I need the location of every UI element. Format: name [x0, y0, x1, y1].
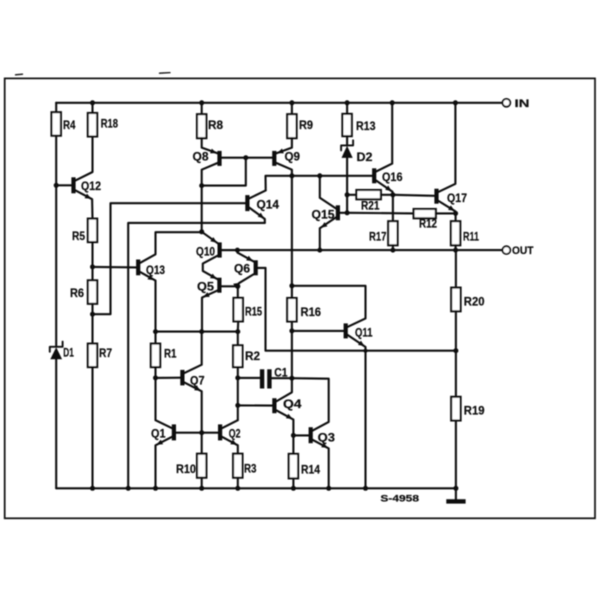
svg-text:R6: R6 [70, 286, 84, 300]
transistor Q12 [71, 177, 75, 193]
resistor R16 [287, 298, 296, 322]
wire R10 bottom lead [201, 478, 203, 489]
resistor R7 [88, 344, 97, 368]
wire R8 top lead [201, 103, 203, 114]
svg-text:R7: R7 [99, 346, 112, 360]
wire R4 top lead [55, 103, 57, 112]
svg-text:R3: R3 [244, 462, 257, 476]
node Q12 base junction [54, 183, 59, 188]
node Q17 emitter junction [453, 211, 458, 216]
node ground junction [453, 486, 458, 491]
wire R20 top lead [455, 250, 457, 288]
svg-text:Q4: Q4 [283, 397, 302, 411]
resistor R5 [88, 219, 97, 243]
transistor Q9 [272, 151, 276, 166]
node Q9 collector junction [289, 173, 294, 178]
wire Q9 collector down to R16 [291, 176, 293, 298]
wire R21 right lead [381, 194, 393, 196]
wire R13 top lead [346, 103, 348, 114]
wire R20 bottom to divider node [455, 311, 457, 397]
node R15 R2 junction [235, 329, 240, 334]
resistor R4 [52, 112, 61, 136]
transistor Q15 [336, 205, 340, 220]
zener diode D2 [341, 140, 353, 150]
svg-text:Q2: Q2 [229, 426, 241, 440]
node Q16 emitter junction [390, 192, 395, 197]
resistor R6 [88, 280, 97, 304]
svg-text:R17: R17 [369, 230, 387, 244]
svg-text:R8: R8 [208, 118, 223, 132]
ground [455, 488, 457, 499]
node Q8 Q9 base tie [243, 155, 248, 160]
wire R13 to D2 [346, 136, 348, 145]
node Q5 base junction [235, 284, 240, 289]
wire D1 bottom to ground bus [55, 359, 57, 488]
resistor R13 [342, 114, 351, 136]
transistor Q2 [218, 424, 222, 440]
wire R21 left lead [347, 194, 356, 196]
node R18 top [90, 100, 95, 105]
wire R14 bottom lead [292, 478, 294, 488]
node Q3 base junction [291, 433, 296, 438]
wire R9 to Q9 emitter [276, 138, 292, 153]
node Q8 collector loop junction [199, 183, 204, 188]
svg-text:Q13: Q13 [146, 263, 165, 277]
wire base tie loop to Q8 collector [202, 158, 246, 186]
wire R12 left lead through R17 column [347, 212, 414, 215]
wire R18 to Q12 collector [75, 137, 92, 181]
svg-text:Q5: Q5 [197, 280, 214, 294]
node R5 R6 junction [90, 264, 95, 269]
svg-text:Q14: Q14 [257, 198, 280, 212]
node R6 R7 junction [90, 312, 95, 317]
node Q1 Q2 base junction [199, 430, 204, 435]
node Q4 base junction [235, 403, 240, 408]
svg-text:S-4958: S-4958 [380, 494, 419, 504]
wire bottom ground bus [56, 487, 456, 489]
node Q10 base junction on output rail [235, 248, 240, 253]
node C1 right junction [289, 376, 294, 381]
svg-text:R2: R2 [245, 349, 260, 363]
wire R11 bottom lead [455, 245, 457, 250]
capacitor C1 [260, 369, 264, 388]
node Q7 collector junction [199, 329, 204, 334]
node R13 top [345, 100, 350, 105]
wire R8 to Q8 emitter [202, 138, 218, 153]
svg-text:Q8: Q8 [193, 150, 209, 164]
svg-text:R21: R21 [361, 199, 380, 213]
transistor Q14 [245, 195, 249, 211]
wire R16 bottom lead [291, 322, 293, 379]
resistor R8 [197, 114, 206, 138]
svg-text:Q9: Q9 [285, 150, 301, 164]
wire Q17 base wire [393, 195, 435, 196]
wire top supply rail [56, 102, 502, 104]
wire Q13 base wire [93, 266, 137, 269]
transistor Q11 [344, 323, 348, 338]
svg-text:Q17: Q17 [447, 191, 467, 205]
wire R18 top lead [91, 103, 93, 113]
node Q15 emitter on output rail [317, 248, 322, 253]
transistor Q3 [309, 427, 313, 443]
svg-text:R15: R15 [245, 305, 262, 319]
resistor R15 [234, 298, 243, 322]
svg-text:R13: R13 [356, 119, 376, 133]
wire R3 bottom lead [237, 478, 239, 489]
svg-text:R14: R14 [301, 462, 320, 476]
svg-text:R18: R18 [101, 117, 119, 131]
wire R10 top lead [201, 433, 203, 454]
resistor R10 [197, 454, 206, 478]
resistor R2 [233, 345, 242, 367]
wire output rail [222, 249, 503, 251]
svg-text:Q7: Q7 [190, 373, 205, 387]
svg-text:OUT: OUT [512, 245, 534, 257]
svg-text:D1: D1 [63, 346, 74, 360]
wire Q7 base wire [156, 377, 181, 379]
node R9 top [289, 100, 294, 105]
wire R11 top lead [455, 213, 457, 221]
wire R17 top lead [392, 195, 394, 221]
svg-text:Q12: Q12 [81, 179, 101, 193]
node divider junction [453, 348, 458, 353]
node R8 top [199, 100, 204, 105]
wire Q14 collector to Q16 base line [266, 176, 373, 191]
wire R2 top lead [237, 332, 239, 346]
svg-text:Q6: Q6 [234, 261, 250, 275]
node Q15 base junction [345, 210, 350, 215]
wire D2 down to R21 node [346, 158, 348, 213]
svg-text:R19: R19 [464, 403, 485, 417]
svg-text:R4: R4 [63, 118, 76, 132]
svg-text:Q11: Q11 [355, 326, 373, 340]
node A mirror output junction [199, 229, 204, 234]
wire R19 bottom to ground [455, 421, 457, 489]
svg-text:R12: R12 [419, 217, 437, 231]
transistor Q17 [434, 189, 438, 204]
wire C1 right lead [272, 377, 292, 379]
node R21 left junction [345, 192, 350, 197]
resistor R12 [414, 209, 436, 218]
terminal IN [503, 99, 511, 107]
wire R9 top lead [291, 103, 293, 114]
wire C1 left lead [238, 377, 260, 379]
resistor R18 [88, 113, 97, 137]
svg-text:D2: D2 [357, 150, 373, 164]
wire Q14 emitter return to ground bus [128, 223, 265, 488]
node R17 on output rail [390, 248, 395, 253]
schematic border frame [5, 78, 595, 518]
node Q11 base junction [289, 328, 294, 333]
svg-text:R16: R16 [301, 305, 322, 319]
svg-text:R11: R11 [463, 230, 479, 244]
transistor Q10 [218, 242, 222, 257]
wire R15 bottom lead [237, 321, 239, 331]
transistor Q13 [136, 260, 140, 276]
resistor R11 [451, 221, 460, 245]
resistor R3 [233, 454, 242, 478]
svg-text:IN: IN [515, 98, 530, 110]
wire lower bias rail [156, 331, 238, 333]
resistor R1 [151, 344, 160, 368]
transistor Q5 [217, 278, 221, 293]
svg-text:Q1: Q1 [151, 426, 166, 440]
svg-text:R1: R1 [164, 347, 177, 361]
zener diode D1 [50, 342, 63, 352]
wire Q6 base down to divider node [266, 268, 456, 351]
wire R5 to R6 [91, 242, 93, 280]
wire R6 to R7 [91, 304, 93, 344]
wire R14 top lead [292, 435, 294, 454]
transistor Q4 [272, 398, 276, 413]
resistor R19 [451, 397, 460, 421]
wire R4 bottom to D1 [55, 136, 57, 347]
registration tick right [160, 72, 171, 75]
wire R1 bottom to Q7 base node [154, 367, 156, 378]
node Q11 collector junction [289, 283, 294, 288]
svg-text:Q10: Q10 [196, 245, 215, 259]
wire Q14 base line to R6 junction [93, 203, 246, 314]
transistor Q7 [180, 370, 184, 386]
svg-text:Q15: Q15 [312, 207, 335, 221]
transistor Q16 [372, 168, 376, 183]
resistor R17 [388, 221, 397, 245]
node R1 top junction [153, 329, 158, 334]
terminal OUT [503, 246, 511, 254]
svg-text:R5: R5 [72, 229, 85, 243]
svg-text:Q16: Q16 [382, 170, 403, 184]
wire Q11 collector loop [292, 286, 366, 327]
node Q15 collector junction [317, 173, 322, 178]
node Q11 emitter divider junction [364, 349, 368, 353]
wire R1 top lead [154, 332, 156, 344]
resistor R9 [287, 114, 296, 138]
transistor Q1 [172, 424, 176, 440]
wire R17 bottom lead [392, 245, 394, 250]
resistor R14 [289, 454, 298, 479]
registration tick left [16, 73, 23, 76]
wire Q4 base wire [238, 404, 273, 406]
svg-text:R20: R20 [464, 295, 485, 309]
wire Q3 base wire [293, 434, 308, 436]
wire Q5 base node to R15 [237, 286, 239, 298]
svg-text:R10: R10 [176, 462, 196, 476]
node C1 left junction [235, 375, 240, 380]
wire R7 bottom to ground bus [91, 367, 93, 488]
resistor R20 [451, 288, 460, 312]
transistor Q6 [254, 260, 258, 275]
node R11 on output rail [453, 248, 458, 253]
svg-text:R9: R9 [299, 118, 313, 132]
wire R12 right lead [436, 212, 456, 214]
wire R2 bottom to Q2 collector [237, 367, 239, 420]
node Q7 base junction [153, 375, 158, 380]
svg-text:Q3: Q3 [318, 431, 336, 445]
wire Q11 emitter to ground bus [364, 351, 366, 489]
transistor Q8 [217, 151, 221, 166]
resistor R21 [356, 190, 381, 199]
